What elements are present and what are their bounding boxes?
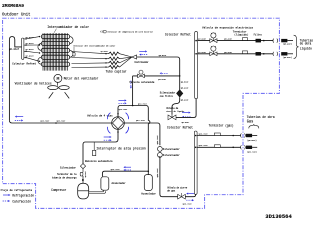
svg-text:φ12.7CuT: φ12.7CuT: [183, 203, 192, 206]
svg-text:(φ9.5CuT): (φ9.5CuT): [247, 139, 256, 142]
svg-text:φ12.7CuT: φ12.7CuT: [111, 168, 120, 171]
svg-text:φ7.9CuT: φ7.9CuT: [26, 42, 35, 45]
svg-text:Refrigeración: Refrigeración: [12, 193, 34, 197]
svg-text:Flujo de refrigerante: Flujo de refrigerante: [1, 188, 33, 192]
svg-text:(líquido): (líquido): [234, 32, 248, 36]
four-way valve: [112, 117, 125, 130]
EEV valve body: [212, 38, 214, 41]
flow arrows at gas stop valve: [188, 193, 194, 195]
svg-text:M: M: [56, 76, 59, 82]
heat exchanger coil rows: [38, 35, 73, 67]
outdoor air thermistor symbol: [103, 30, 106, 33]
propeller fan: [57, 82, 59, 85]
svg-text:Reinicio automático: Reinicio automático: [85, 159, 113, 163]
flow arrows near distributor: [139, 50, 145, 52]
liquid filter: [256, 39, 261, 42]
svg-text:Silenciador: Silenciador: [163, 147, 180, 151]
wire: solenoid branch: [133, 76, 180, 105]
svg-text:φ7.9CuT: φ7.9CuT: [198, 51, 206, 54]
gas thermistor: [214, 145, 220, 148]
field union gas (bold): [246, 134, 252, 137]
svg-text:con filtro: con filtro: [160, 95, 173, 98]
svg-text:Colector Refnet: Colector Refnet: [12, 61, 36, 65]
svg-text:Colector Refnet: Colector Refnet: [165, 32, 191, 36]
liquid thermistor: [242, 51, 247, 54]
high pressure switch stem: [93, 142, 95, 150]
svg-text:Termistor de temperatura de ai: Termistor de temperatura de aire exterio…: [107, 31, 153, 34]
wire: liquid branch: [195, 53, 197, 55]
svg-text:Intercambiador de calor: Intercambiador de calor: [47, 25, 89, 29]
liquid refnet collector (right): [195, 31, 198, 98]
svg-text:Silenciador: Silenciador: [60, 166, 76, 170]
discharge pipe thermistor: [80, 172, 83, 176]
wire: stop valve to liquid collector: [176, 99, 196, 118]
distributor: [132, 55, 137, 59]
svg-text:φ7.9CuT: φ7.9CuT: [26, 36, 35, 39]
gas refnet collector: [194, 131, 197, 194]
liquid thermistor: [242, 38, 247, 41]
svg-text:φ12.7CuT: φ12.7CuT: [199, 144, 208, 147]
svg-text:Válvula de expansión electróni: Válvula de expansión electrónica: [202, 26, 253, 30]
discharge muffler (diamond): [80, 164, 85, 169]
wire: distributor outlet: [137, 57, 180, 90]
gas muffler 1: [158, 147, 163, 152]
flare fitting: [240, 145, 243, 149]
brace liquid field piping: [294, 35, 299, 58]
svg-text:φ4.0CuT: φ4.0CuT: [158, 78, 166, 81]
svg-text:Gas: Gas: [247, 119, 254, 124]
svg-text:φ12.7CuT: φ12.7CuT: [156, 135, 159, 144]
field union gas (bold): [246, 146, 252, 149]
4wv flow arcs: [126, 113, 129, 120]
svg-text:φ6.4CuT: φ6.4CuT: [224, 51, 232, 54]
compressor: [78, 183, 89, 199]
svg-text:φ9.5CuT: φ9.5CuT: [85, 171, 87, 177]
hop over gas line: [148, 121, 150, 124]
legend cooling arrow: [3, 194, 9, 196]
svg-text:φ7.9CuT: φ7.9CuT: [26, 55, 35, 58]
svg-text:Acumulador: Acumulador: [141, 192, 156, 196]
svg-text:φ6.4CuT: φ6.4CuT: [181, 99, 189, 102]
flow arrows at liquid stop valve: [182, 112, 189, 114]
svg-text:φ12.7CuT: φ12.7CuT: [199, 132, 208, 135]
gas thermistor: [214, 133, 220, 136]
wire: 4wv left port to coil riser: [9, 120, 111, 123]
flow arrows above 4wv: [118, 99, 124, 101]
svg-text:φ9.5CuT: φ9.5CuT: [181, 80, 189, 83]
liquid refnet collector (coil side): [22, 38, 24, 59]
flow arrows at accumulator line: [125, 166, 131, 168]
svg-text:Calefacción: Calefacción: [12, 199, 31, 203]
svg-text:Compresor: Compresor: [51, 188, 66, 192]
fan motor M: [54, 74, 62, 82]
svg-text:(φ12.7CuT): (φ12.7CuT): [247, 151, 256, 154]
wire: 4wv bottom to compressor discharge: [83, 129, 118, 163]
gas muffler 2: [158, 153, 163, 158]
down brace gas: [249, 124, 259, 128]
svg-text:Acumulador: Acumulador: [112, 181, 127, 185]
wire: coil to capillary: [72, 52, 109, 68]
refnet branch pipes to coil: [24, 36, 40, 62]
wire: mufflers down to gas stop valve: [160, 156, 178, 197]
svg-text:φ12.7CuT: φ12.7CuT: [41, 119, 50, 122]
svg-text:(φ6.4CuT): (φ6.4CuT): [283, 56, 292, 59]
svg-text:2MXM68A9: 2MXM68A9: [2, 3, 24, 9]
heat exchanger fins: [43, 33, 67, 70]
svg-text:φ12.7CuT: φ12.7CuT: [136, 119, 145, 122]
svg-text:φ7.9CuT: φ7.9CuT: [26, 48, 35, 51]
heat exchanger thermistor: [73, 52, 75, 56]
high pressure switch: [93, 150, 96, 155]
accumulator 2: [144, 175, 152, 191]
field union (bold): [281, 39, 287, 42]
svg-text:Motor del ventilador: Motor del ventilador: [64, 77, 99, 81]
svg-text:φ6.4CuT: φ6.4CuT: [181, 87, 189, 90]
flow arrow down on bypass: [130, 81, 132, 87]
svg-text:φ6.4CuT: φ6.4CuT: [182, 121, 190, 124]
wire: down to liquid stop valve: [172, 97, 180, 114]
svg-text:Colector Refnet: Colector Refnet: [167, 125, 193, 129]
EEV motor: [211, 46, 216, 51]
svg-text:Silenciador: Silenciador: [163, 153, 180, 157]
EEV motor: [211, 33, 216, 38]
field union (bold): [281, 52, 287, 55]
flare fitting: [272, 39, 275, 43]
svg-text:Termistor (gas): Termistor (gas): [209, 124, 234, 128]
outdoor unit boundary (dashed): [3, 18, 280, 208]
svg-text:de obra: de obra: [300, 42, 312, 46]
EEV valve body: [212, 51, 214, 54]
svg-text:3D130564: 3D130564: [265, 214, 292, 220]
flow arrows on discharge: [104, 136, 110, 138]
accumulator 1: [101, 177, 109, 190]
svg-text:de gas: de gas: [167, 188, 175, 192]
capillary tubes (zigzag): [109, 52, 132, 69]
wire: liquid branch: [195, 40, 197, 42]
flow arrow at solenoid: [162, 72, 168, 74]
flare fitting: [272, 52, 275, 56]
svg-text:Líquido: Líquido: [300, 47, 312, 51]
svg-text:φ9.5CuT: φ9.5CuT: [159, 54, 167, 57]
flow arrows on left pipe: [17, 116, 23, 118]
liquid filter: [256, 52, 261, 55]
svg-text:Distribuidor: Distribuidor: [135, 61, 150, 64]
solenoid valve: [139, 70, 143, 74]
wire: suction double pipe: [89, 191, 104, 193]
wire: top-left loop pipe: [9, 37, 21, 121]
svg-text:φ12.7CuT: φ12.7CuT: [156, 168, 159, 177]
svg-text:Interruptor de alta presión: Interruptor de alta presión: [96, 146, 146, 150]
svg-text:tubería de descarga: tubería de descarga: [52, 176, 77, 179]
svg-text:φ6.4CuT: φ6.4CuT: [224, 38, 232, 41]
svg-text:Termistor del intercambiador d: Termistor del intercambiador de calor: [73, 45, 116, 48]
wire: gas branch: [195, 135, 197, 137]
svg-text:Filtro: Filtro: [254, 33, 263, 37]
svg-text:φ6.4CuT: φ6.4CuT: [9, 48, 19, 51]
muffler with filter (diamond): [176, 90, 183, 98]
wire: gas branch: [195, 147, 197, 149]
wire: 4wv right port to gas mufflers: [124, 123, 160, 145]
svg-text:(φ6.4CuT): (φ6.4CuT): [283, 43, 292, 46]
svg-text:Tubo capilar: Tubo capilar: [106, 70, 127, 75]
wire: 4wv top line to accumulator riser: [118, 106, 148, 121]
legend heating arrow: [3, 200, 9, 202]
wire: gas valve to gas collector: [185, 194, 195, 197]
svg-text:Outdoor Unit: Outdoor Unit: [2, 11, 31, 17]
svg-text:φ7.9CuT: φ7.9CuT: [198, 38, 206, 41]
svg-text:Válvula solenoide: Válvula solenoide: [129, 80, 154, 84]
svg-text:φ12.7CuT: φ12.7CuT: [119, 108, 128, 111]
svg-text:φ1.0CuT: φ1.0CuT: [101, 50, 109, 53]
wire: accumulator top line: [102, 171, 148, 177]
flare fitting: [240, 134, 243, 138]
svg-text:φ12.7CuT: φ12.7CuT: [57, 119, 66, 122]
svg-text:φ12.7CuT: φ12.7CuT: [138, 102, 147, 105]
svg-text:Ventilador de hélices: Ventilador de hélices: [15, 82, 52, 87]
